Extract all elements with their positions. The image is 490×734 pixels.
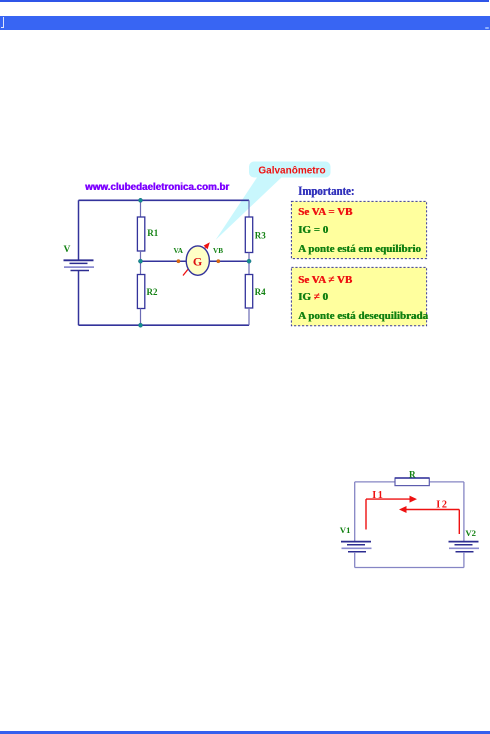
resistor R1: [137, 217, 144, 251]
wire: circuit2 top-right segment: [429, 481, 464, 483]
label I1: [372, 490, 384, 501]
top blue banner bar: [0, 16, 490, 30]
resistor R: [395, 478, 429, 486]
note box 1 frame (equilibrio): [291, 201, 426, 258]
note box 2 line: A ponte esta desequilibrada: [298, 310, 428, 322]
white bracket mark in banner: [3, 17, 4, 28]
wire: bridge bottom: [79, 324, 250, 326]
svg-text:VA: VA: [174, 247, 184, 255]
heading Importante: [298, 184, 354, 199]
label V1: [340, 525, 351, 535]
label R3: [255, 230, 266, 240]
label VA: [174, 247, 184, 255]
battery V1: [341, 542, 372, 552]
wire: bridge top: [79, 199, 250, 201]
node: top junction of middle branch: [138, 198, 142, 202]
wire: right branch bottom segment: [248, 308, 250, 325]
svg-text:I1: I1: [372, 490, 384, 501]
node: bottom junction of middle branch: [138, 323, 142, 327]
svg-text:I2: I2: [436, 500, 448, 511]
wire: right branch between R3 and R4: [248, 253, 250, 275]
battery V: [64, 260, 95, 270]
label VB: [213, 247, 223, 255]
wire: center bridge left (node A side): [141, 260, 188, 262]
label R1: [147, 228, 158, 238]
wire: circuit2 left below battery: [354, 552, 356, 568]
wire: circuit2 right below battery: [463, 552, 465, 568]
resistor R2: [137, 275, 144, 309]
wire: circuit2 left side down to battery V1: [354, 482, 356, 541]
wire: bridge left lower (from battery V): [78, 271, 80, 326]
wire: bridge left upper (to battery V): [78, 200, 80, 260]
current arrow I2: [399, 506, 459, 534]
note box 1 line: A ponte esta em equilibrio: [298, 243, 421, 255]
node A junction (middle branch / bridge wire): [138, 259, 142, 263]
galvanometer G: [186, 246, 209, 275]
wire: circuit2 bottom: [355, 567, 464, 569]
wire: circuit2 top-left segment: [355, 481, 395, 483]
label I2: [436, 500, 448, 511]
label R2: [147, 287, 158, 297]
resistor R3: [245, 217, 252, 253]
bottom blue rule: [0, 731, 490, 734]
wire: middle branch between R1 and center: [140, 251, 142, 275]
node B terminal dot (orange): [217, 260, 220, 263]
label V2: [465, 528, 476, 538]
callout tail of Galvanometro label: [216, 176, 284, 240]
note box 1 line: IG = 0: [298, 224, 328, 236]
node B junction (right branch / bridge wire): [247, 259, 251, 263]
resistor R4: [245, 275, 252, 309]
wire: circuit2 right side down to battery V2: [463, 482, 465, 541]
svg-text:R: R: [409, 469, 416, 479]
label R: [409, 469, 416, 479]
galvanometer needle (red arrow): [183, 242, 210, 275]
current arrow I1: [366, 496, 417, 530]
svg-text:R2: R2: [147, 287, 158, 297]
svg-text:V1: V1: [340, 525, 351, 535]
wire: middle branch top segment: [140, 200, 142, 217]
wire: center bridge right (node B side): [209, 260, 249, 262]
svg-text:R1: R1: [147, 228, 158, 238]
note box 2 frame (desequilibrada): [291, 267, 426, 325]
wire: middle branch bottom segment: [140, 309, 142, 326]
top thin blue rule: [0, 0, 489, 2]
wire: right branch top segment: [248, 200, 250, 217]
note box 2 line: IG != 0: [298, 291, 328, 303]
svg-text:G: G: [193, 254, 202, 268]
node A terminal dot (orange): [177, 260, 180, 263]
svg-text:R3: R3: [255, 230, 266, 240]
label R4: [255, 287, 266, 297]
svg-text:V: V: [64, 245, 71, 255]
svg-text:V2: V2: [465, 528, 476, 538]
callout box Galvanometro: [249, 162, 331, 178]
note box 1 line: Se VA = VB: [298, 206, 352, 218]
note box 2 line: Se VA != VB: [298, 274, 352, 286]
svg-text:VB: VB: [213, 247, 223, 255]
battery V2: [449, 542, 480, 552]
label V: [64, 245, 71, 255]
site url text: [85, 181, 229, 192]
svg-text:R4: R4: [255, 287, 266, 297]
svg-text:Galvanômetro: Galvanômetro: [258, 166, 325, 177]
dark notch bottom-right of banner: [485, 27, 489, 29]
